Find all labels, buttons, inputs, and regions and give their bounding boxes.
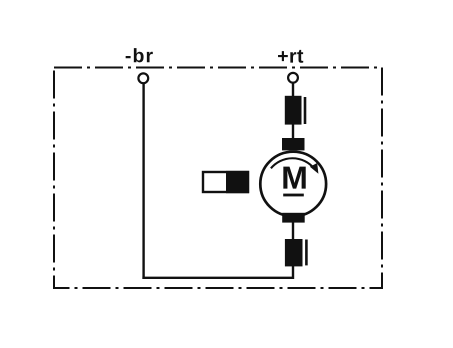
wire: choke L2 down to bottom return — [292, 266, 294, 279]
wire: bottom brush to choke L2 — [292, 222, 294, 240]
suppression choke L1 — [285, 96, 305, 125]
brush (bottom) — [282, 213, 305, 223]
enclosure outline (dash-dot unit boundary) — [54, 68, 382, 289]
brush (top) — [282, 138, 305, 150]
terminal +rt — [288, 73, 298, 83]
wire: choke L1 to top brush — [292, 125, 294, 140]
label M with underline — [283, 167, 306, 197]
label +rt — [278, 50, 303, 63]
motor M1 (armature circle) — [260, 152, 326, 217]
suppression choke L2 — [285, 239, 307, 266]
label -br — [126, 48, 153, 62]
terminal -br — [138, 73, 148, 83]
wire: -br terminal down to bottom junction — [142, 84, 144, 279]
wire: +rt terminal to choke L1 — [292, 83, 294, 97]
wire: bottom return run to motor branch — [142, 277, 293, 279]
rotation direction arrow — [271, 158, 319, 174]
permanent magnet (field) — [203, 171, 249, 193]
